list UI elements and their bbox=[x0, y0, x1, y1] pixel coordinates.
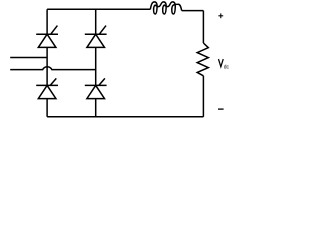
thyristor T2 (top-right): anode triangle bbox=[87, 34, 105, 47]
label: Vdc (dc output voltage across load): letter V bbox=[218, 59, 223, 67]
thyristor T1 (top-left): gate lead bbox=[51, 26, 58, 34]
label Vdc: subscript dc bbox=[224, 64, 229, 70]
resistor: dc load (zigzag) bbox=[197, 43, 208, 76]
thyristor T1 (top-left): cathode bar bbox=[36, 33, 58, 35]
wire: ac input line (upper phase) to left leg bbox=[10, 57, 47, 59]
thyristor T2 (top-right): cathode bar bbox=[85, 33, 107, 35]
thyristor T3 (bottom-left): cathode bar bbox=[36, 84, 58, 86]
wire: left leg, thyristor 1 anode to thyristor 3 cathode (upper ac feed node) bbox=[46, 47, 48, 85]
wire: right leg, thyristor 2 anode to thyristor 4 cathode (lower ac feed node) bbox=[95, 47, 97, 85]
thyristor T3 (bottom-left): anode triangle bbox=[38, 85, 56, 98]
label: + (dc output positive terminal) bbox=[218, 13, 223, 18]
thyristor T4 (bottom-right): cathode bar bbox=[85, 84, 107, 86]
wire: right branch, top-right corner down to load resistor bbox=[202, 11, 204, 43]
thyristor T4 (bottom-right): anode triangle bbox=[87, 85, 105, 98]
thyristor T2 (top-right): gate lead bbox=[99, 26, 106, 34]
wire: left leg, thyristor 3 anode to bottom rail bbox=[46, 99, 48, 117]
wire: inductor output to top-right corner bbox=[182, 10, 204, 12]
wire: left leg, top rail to thyristor 1 cathode bbox=[46, 9, 48, 34]
wire: right leg, top rail to thyristor 2 cathode bbox=[95, 9, 97, 34]
wire: right leg, thyristor 4 anode to bottom rail bbox=[95, 99, 97, 117]
svg-text:dc: dc bbox=[224, 64, 229, 70]
thyristor T1 (top-left): anode triangle bbox=[38, 34, 56, 47]
wire: top rail from left leg to inductor bbox=[47, 8, 150, 10]
thyristor T4 (bottom-right): gate lead bbox=[99, 78, 105, 85]
label: − (dc output negative terminal) bbox=[218, 108, 224, 110]
wire: bottom rail bbox=[47, 116, 203, 118]
thyristor T3 (bottom-left): gate lead bbox=[50, 78, 56, 85]
wire: ac input line (lower phase) with crossover hop over left leg, to right leg bbox=[10, 67, 96, 70]
inductor Ld (dc-side smoothing inductor, 3 turns) bbox=[150, 2, 181, 14]
wire: right branch, resistor bottom down to bottom rail bbox=[202, 76, 204, 117]
